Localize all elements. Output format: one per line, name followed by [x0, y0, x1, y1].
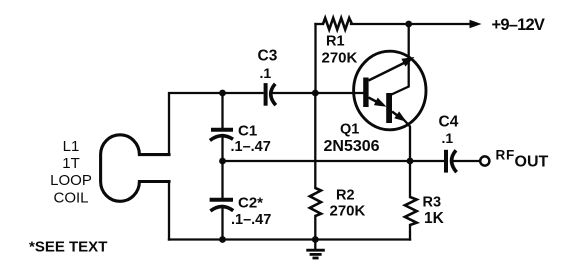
svg-text:1K: 1K [424, 210, 445, 227]
svg-text:.1: .1 [442, 130, 454, 146]
transistor Q1 [354, 51, 426, 130]
svg-text:RF: RF [496, 148, 516, 163]
wire R1R2 vertical upper [314, 24, 316, 93]
wire bottom rail [169, 238, 410, 240]
svg-text:C3: C3 [258, 48, 278, 65]
node C1 top junction [219, 90, 226, 97]
wire loop-bottom lead down [168, 183, 170, 240]
node emitter-R3 junction [407, 158, 414, 165]
wire R3 vertical upper [409, 161, 411, 197]
terminal RF out [480, 156, 489, 165]
svg-text:2N5306: 2N5306 [324, 138, 380, 155]
wire R2 to ground rail [314, 216, 316, 240]
node C2-bottom junction [219, 236, 226, 243]
resistor R1 [323, 18, 352, 30]
wire R1 to V+ arrow [351, 23, 471, 25]
node base junction [312, 90, 319, 97]
capacitor C4 [446, 150, 457, 173]
wire top rail left corner [316, 23, 324, 25]
svg-text:270K: 270K [330, 203, 366, 220]
wire loop-top to C3 [169, 93, 263, 152]
wire C1 branch upper [221, 93, 223, 128]
svg-text:COIL: COIL [53, 190, 88, 207]
resistor R3 [405, 197, 417, 225]
svg-text:270K: 270K [322, 50, 358, 67]
wire C2 to bottom rail [221, 206, 223, 240]
svg-text:+9–12V: +9–12V [492, 16, 545, 34]
svg-text:R2: R2 [336, 188, 355, 204]
node ground junction [312, 236, 319, 243]
svg-text:C2*: C2* [238, 195, 263, 212]
svg-text:1T: 1T [62, 155, 80, 172]
wire emitter rail [223, 160, 444, 162]
capacitor C2 [210, 200, 234, 211]
wire emitter rail to C2 [221, 161, 223, 198]
svg-text:.1–.47: .1–.47 [231, 212, 271, 228]
wire collector vertical [393, 24, 409, 94]
wire emitter exit to rail [405, 121, 411, 162]
svg-text:LOOP: LOOP [50, 172, 92, 189]
wire C1 to emitter rail [221, 135, 223, 161]
svg-text:Q1: Q1 [340, 122, 359, 138]
svg-text:.1–.47: .1–.47 [231, 139, 271, 155]
wire C3 to base [272, 92, 364, 94]
svg-text:L1: L1 [63, 138, 80, 155]
node V+ rail junction [405, 21, 412, 28]
wire R3 bottom corner [409, 225, 411, 240]
inductor L1 loop coil [101, 135, 169, 201]
svg-text:OUT: OUT [515, 154, 549, 171]
wire base junction down to R2 [314, 93, 316, 188]
svg-text:*SEE TEXT: *SEE TEXT [29, 239, 107, 256]
node emitter-C1C2 junction [219, 158, 226, 165]
svg-text:R3: R3 [423, 195, 442, 211]
capacitor C3 [266, 83, 276, 106]
resistor R2 [310, 188, 321, 216]
svg-text:C4: C4 [439, 114, 459, 131]
svg-text:.1: .1 [260, 65, 272, 81]
wire C4 to terminal [453, 160, 480, 162]
capacitor C1 [210, 130, 233, 141]
ground [306, 240, 325, 259]
svg-text:R1: R1 [326, 34, 345, 50]
V+ arrowhead [470, 20, 482, 28]
svg-text:C1: C1 [238, 123, 257, 140]
